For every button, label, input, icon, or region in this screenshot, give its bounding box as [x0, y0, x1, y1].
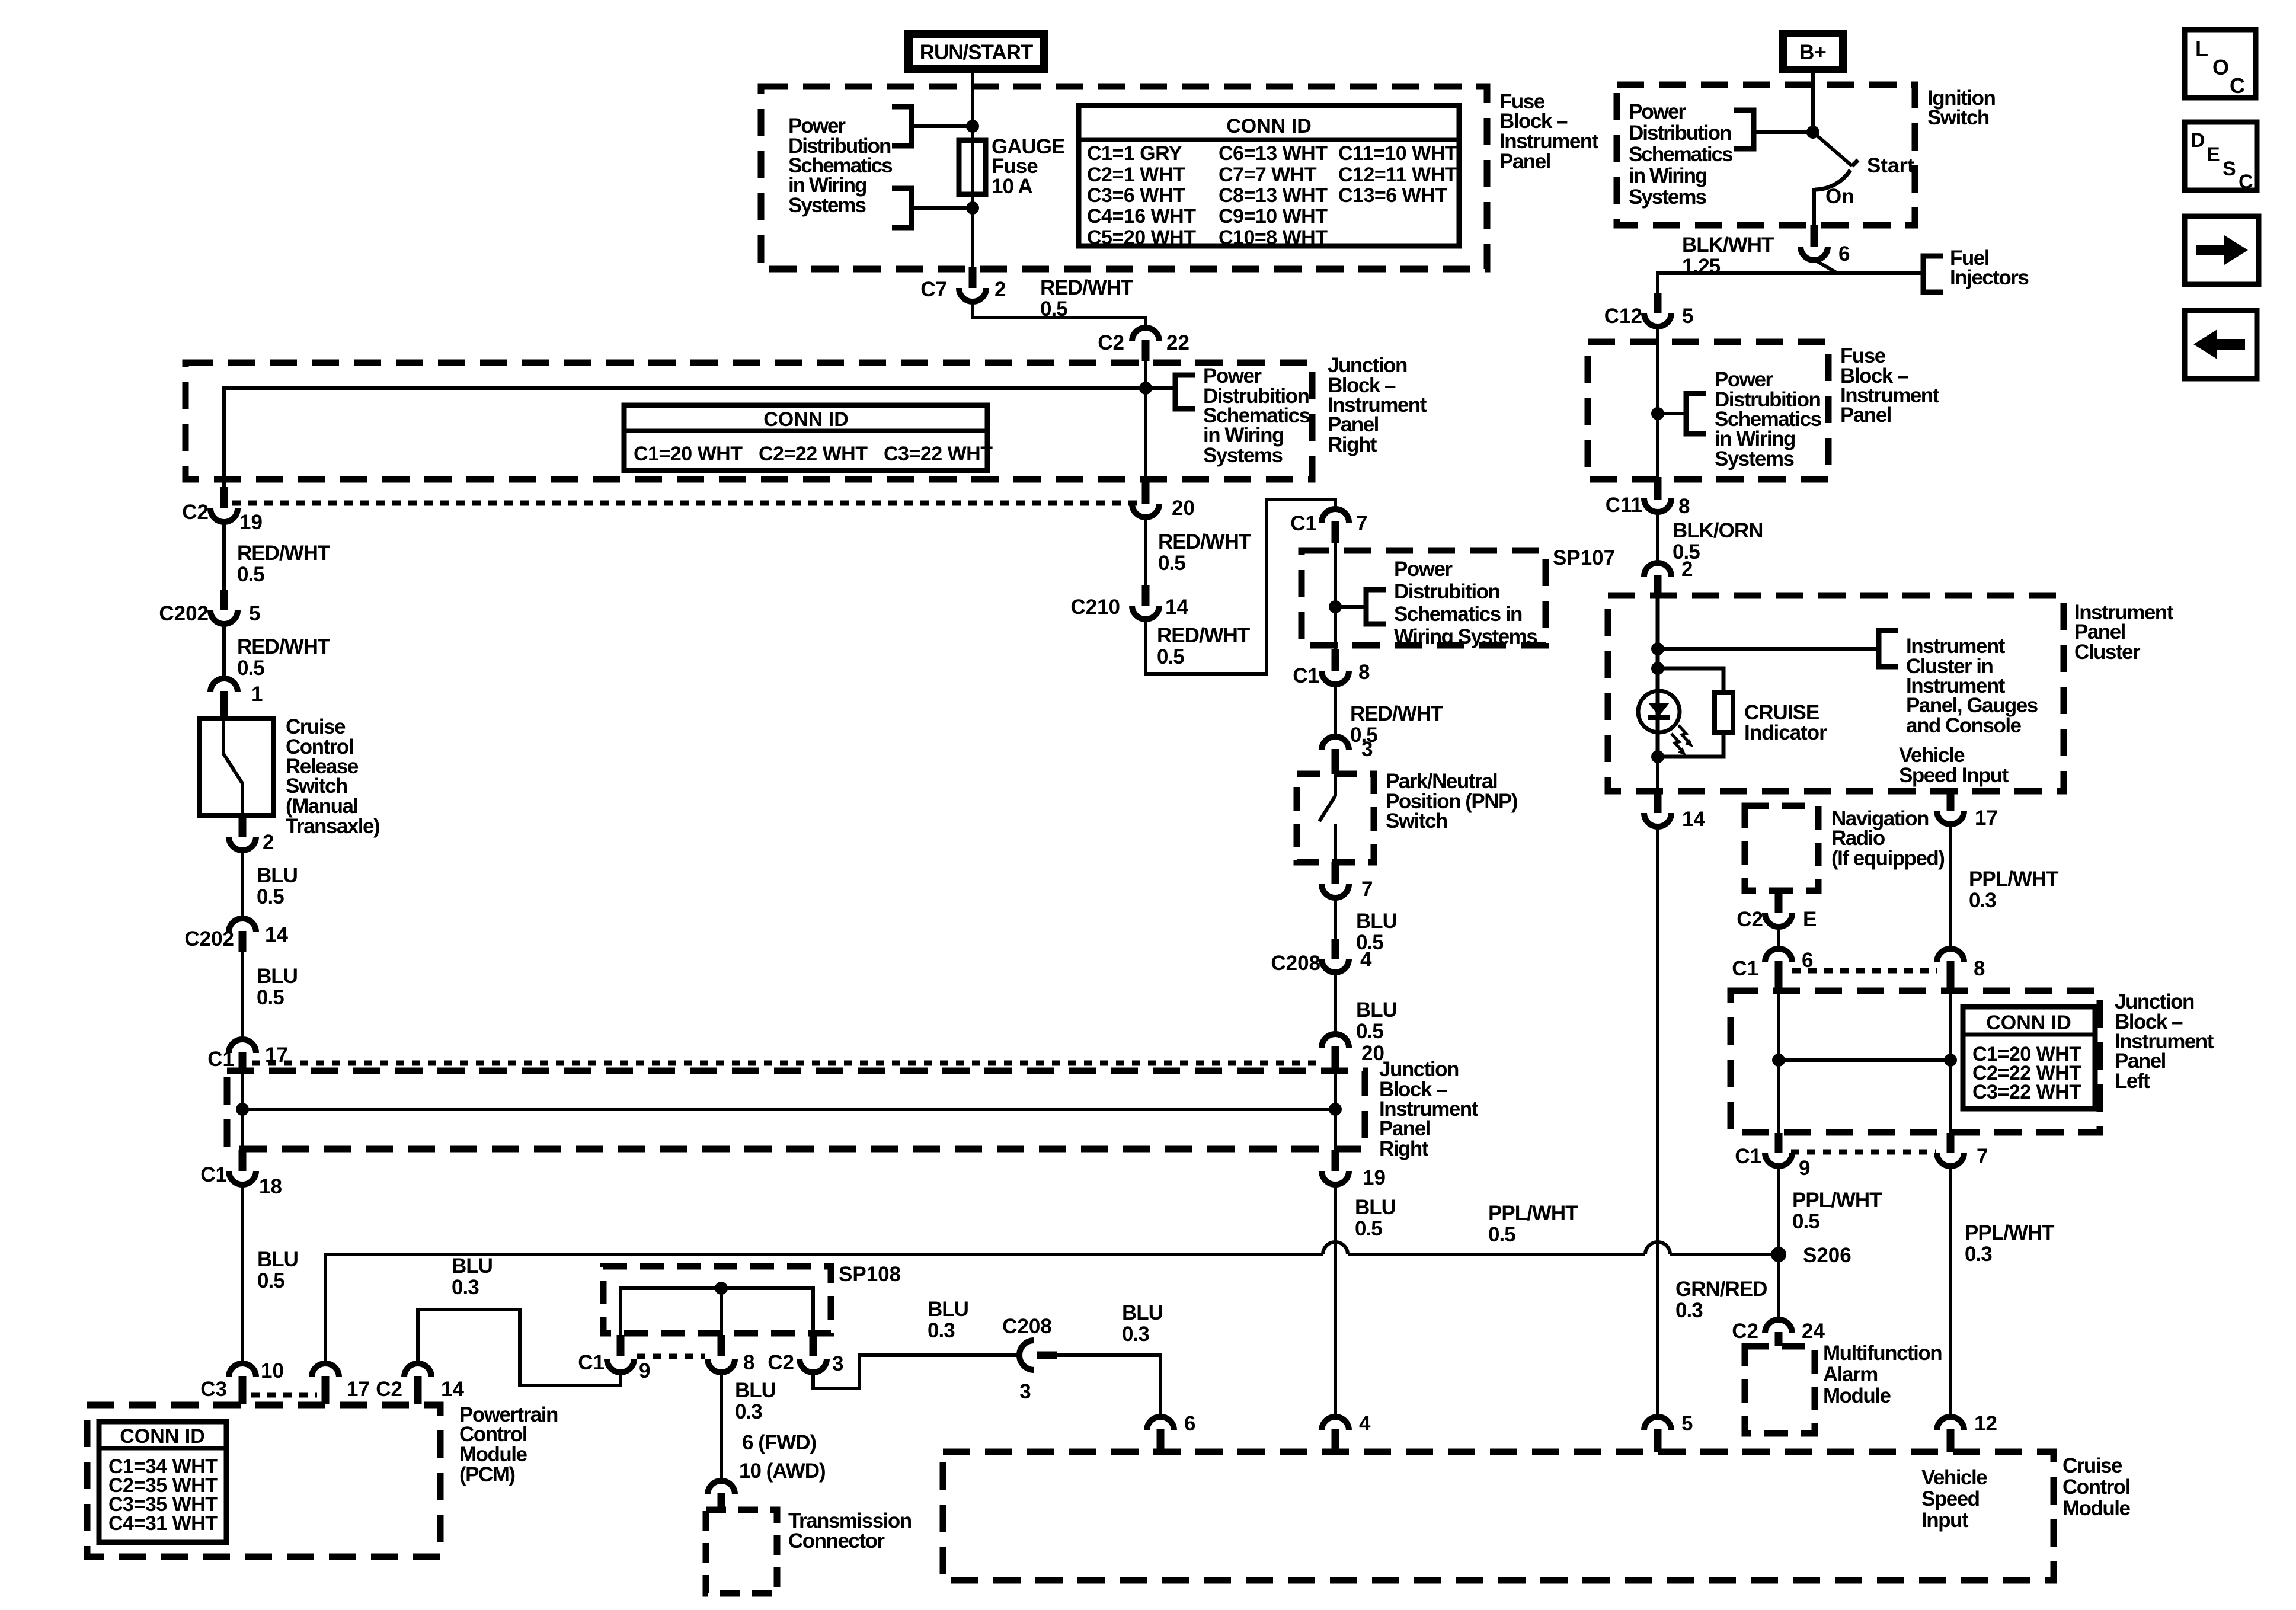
junction dot jb left (right): [1944, 1054, 1957, 1067]
svg-text:0.5: 0.5: [237, 657, 264, 680]
svg-text:C5=20 WHT: C5=20 WHT: [1087, 226, 1196, 249]
svg-text:C208: C208: [1271, 952, 1320, 975]
svg-text:Module: Module: [1823, 1384, 1891, 1407]
svg-text:D: D: [2191, 129, 2205, 152]
label Junction Block - Instrument Panel Right (upper): [1328, 354, 1427, 456]
connector C202 pin 5: [159, 590, 260, 625]
dotted line 6 to 8: [1792, 968, 1937, 974]
svg-text:C3: C3: [200, 1378, 227, 1401]
svg-text:8: 8: [1358, 661, 1370, 684]
junction dot LED bottom: [1651, 750, 1664, 763]
svg-text:0.5: 0.5: [257, 885, 284, 908]
svg-text:8: 8: [1678, 495, 1690, 518]
svg-text:17: 17: [347, 1378, 370, 1401]
svg-text:C12: C12: [1604, 305, 1642, 328]
CRUISE indicator LED: [1638, 691, 1693, 756]
svg-text:18: 18: [259, 1175, 282, 1198]
connector transmission: [708, 1481, 735, 1510]
svg-text:C202: C202: [184, 927, 234, 950]
wire C202-14 to C1-17: [241, 952, 244, 1041]
junction dot jb right upper: [1139, 382, 1152, 395]
svg-text:0.3: 0.3: [452, 1276, 479, 1299]
connector C1 pin 9 (SP108): [578, 1335, 650, 1382]
PNP switch blade: [1319, 774, 1335, 862]
release switch blade: [223, 718, 242, 815]
svg-text:0.3: 0.3: [1965, 1243, 1992, 1266]
wire jb dot to bracket: [1146, 386, 1175, 390]
wire 19 to C202: [222, 521, 226, 591]
bracket power distribution (ignition): [1734, 110, 1754, 149]
svg-text:Systems: Systems: [1203, 444, 1283, 467]
junction dot fuse bottom bracket: [966, 201, 979, 215]
svg-text:C202: C202: [159, 602, 209, 625]
label Ignition Switch: [1927, 87, 1995, 129]
svg-text:C1: C1: [1735, 1145, 1761, 1168]
svg-text:7: 7: [1356, 512, 1367, 535]
connector C1 pin 7: [1290, 509, 1367, 543]
svg-text:Vehicle: Vehicle: [1921, 1466, 1987, 1489]
svg-text:On: On: [1825, 185, 1854, 208]
hop of speed wire over 19 wire: [1323, 1242, 1348, 1254]
svg-text:C9=10 WHT: C9=10 WHT: [1219, 205, 1328, 228]
wire C12-5 through fuse block: [1656, 326, 1659, 481]
bracket power distrubition (jb right upper): [1175, 375, 1195, 409]
svg-text:Module: Module: [2062, 1497, 2131, 1520]
svg-text:Schematics in: Schematics in: [1394, 603, 1522, 626]
speed wire right segment: [1670, 1253, 1779, 1256]
svg-text:10: 10: [261, 1359, 284, 1382]
svg-text:BLU: BLU: [928, 1298, 968, 1321]
connector 2 (cluster in): [1644, 512, 1693, 598]
connector C1 pin 6 (jb left): [1732, 949, 1813, 991]
svg-text:0.3: 0.3: [1122, 1323, 1149, 1346]
connector 7 (PNP out): [1322, 862, 1373, 901]
svg-text:C10=8 WHT: C10=8 WHT: [1219, 226, 1328, 249]
wire RUN/START to fuse: [971, 73, 974, 142]
svg-text:C7=7 WHT: C7=7 WHT: [1219, 164, 1317, 186]
fuse GAUGE 10 A: [959, 140, 986, 208]
wire bracket to fuse wire (top): [912, 124, 973, 128]
svg-text:C3=22 WHT: C3=22 WHT: [1972, 1081, 2081, 1103]
label Junction Block - Instrument Panel Right (lower): [1379, 1058, 1479, 1160]
label Instrument Panel Cluster: [2074, 601, 2174, 664]
connector 17 (cluster exit): [1937, 806, 1998, 830]
cruise control module dashed box: [943, 1452, 2054, 1580]
dotted line SP108 connectors: [637, 1354, 705, 1359]
label CRUISE Indicator: [1744, 701, 1827, 744]
svg-text:PPL/WHT: PPL/WHT: [1969, 868, 2058, 891]
svg-text:RED/WHT: RED/WHT: [1158, 530, 1251, 553]
connector C2 pin 14 (PCM): [376, 1363, 464, 1404]
svg-text:0.3: 0.3: [928, 1319, 955, 1342]
svg-text:Switch: Switch: [1386, 809, 1447, 833]
svg-text:Cluster: Cluster: [2074, 641, 2141, 664]
connector 2 (release switch): [229, 815, 274, 854]
svg-text:PPL/WHT: PPL/WHT: [1792, 1189, 1882, 1212]
svg-text:Cruise: Cruise: [2062, 1454, 2122, 1477]
svg-text:3: 3: [832, 1352, 843, 1375]
svg-text:C8=13 WHT: C8=13 WHT: [1219, 184, 1328, 207]
connector 20 (jb right exit): [1132, 481, 1195, 520]
wire C210 to C1-7 loop: [1146, 500, 1335, 674]
junction dot SP108: [715, 1282, 728, 1295]
label PPL/WHT 0.3 (7): [1965, 1221, 2054, 1266]
junction dot cluster top: [1651, 642, 1664, 655]
power feed label RUN/START: [904, 30, 1048, 73]
junction dot SP107: [1329, 600, 1342, 613]
svg-text:17: 17: [1975, 806, 1998, 830]
connector C2 pin 19: [182, 487, 263, 534]
svg-text:0.5: 0.5: [1157, 645, 1184, 668]
junction dot jb lower right: [1329, 1103, 1342, 1116]
bracket power distrubition (SP107): [1366, 590, 1386, 624]
svg-text:B+: B+: [1799, 41, 1827, 64]
svg-text:Power: Power: [1629, 100, 1686, 123]
svg-text:PPL/WHT: PPL/WHT: [1488, 1202, 1578, 1225]
label SP107: [1553, 546, 1615, 569]
svg-text:0.3: 0.3: [735, 1400, 762, 1423]
svg-text:19: 19: [239, 511, 263, 534]
svg-text:BLU: BLU: [257, 965, 298, 988]
svg-text:Control: Control: [2062, 1475, 2130, 1499]
wire SP107 dot to bracket: [1335, 605, 1366, 609]
svg-text:8: 8: [743, 1351, 754, 1374]
svg-text:Input: Input: [1921, 1509, 1969, 1532]
svg-text:S: S: [2223, 158, 2236, 180]
wire cluster internal vertical: [1656, 598, 1660, 757]
connector C1 pin 9 (jb left exit): [1735, 1133, 1810, 1180]
label RED/WHT 0.5 (19): [237, 542, 330, 586]
label Park/Neutral Position (PNP) Switch: [1386, 770, 1517, 833]
svg-text:4: 4: [1359, 1412, 1371, 1435]
connector C202 pin 14: [184, 918, 288, 952]
svg-text:(PCM): (PCM): [459, 1463, 515, 1486]
wire C208 to cruise module 6: [1057, 1355, 1160, 1419]
svg-text:0.5: 0.5: [1488, 1223, 1515, 1246]
svg-text:Speed Input: Speed Input: [1899, 764, 2009, 787]
svg-text:BLU: BLU: [257, 864, 298, 887]
connector C2 pin 24: [1732, 1320, 1825, 1346]
svg-text:9: 9: [1799, 1157, 1810, 1180]
svg-text:C1: C1: [207, 1048, 234, 1071]
svg-text:C7: C7: [920, 278, 947, 301]
CONN ID table (jb right): [624, 405, 993, 470]
wire 7 to cruise module 12: [1949, 1166, 1952, 1419]
label BLU 0.5 (release sw): [257, 864, 298, 908]
label Power Distrubition Schematics in Wiring Systems (SP107): [1394, 558, 1537, 648]
svg-text:3: 3: [1361, 738, 1373, 761]
label RED/WHT 0.5 (20): [1158, 530, 1251, 575]
svg-text:SP108: SP108: [839, 1263, 901, 1286]
label Powertrain Control Module (PCM): [459, 1403, 558, 1486]
label On: [1825, 185, 1854, 208]
svg-text:12: 12: [1974, 1412, 1997, 1435]
label Start: [1867, 154, 1914, 177]
svg-text:0.5: 0.5: [237, 563, 264, 586]
svg-text:5: 5: [1682, 305, 1693, 328]
svg-text:C1: C1: [1290, 512, 1317, 535]
svg-text:BLK/WHT: BLK/WHT: [1682, 233, 1774, 257]
svg-text:C3=6 WHT: C3=6 WHT: [1087, 184, 1185, 207]
connector C1 pin 17: [207, 1039, 288, 1074]
svg-text:0.5: 0.5: [1158, 552, 1185, 575]
svg-text:BLU: BLU: [452, 1254, 493, 1278]
label BLK/WHT 1.25: [1682, 233, 1774, 278]
svg-text:C: C: [2239, 171, 2253, 193]
wire E to C1-6: [1777, 926, 1780, 950]
connector C208 pin 4: [1271, 939, 1372, 975]
svg-text:RED/WHT: RED/WHT: [1040, 276, 1133, 299]
wire jb left horizontal: [1779, 1058, 1950, 1062]
svg-text:C2: C2: [1732, 1320, 1758, 1343]
svg-text:Multifunction: Multifunction: [1823, 1342, 1942, 1365]
wire C1-6 through jb left: [1777, 991, 1780, 1134]
bracket fuel injectors: [1923, 256, 1943, 292]
svg-text:7: 7: [1977, 1145, 1988, 1168]
connector 14 (cluster exit): [1644, 793, 1705, 831]
label Multifunction Alarm Module: [1823, 1342, 1942, 1407]
wire C202-5 to 1: [222, 623, 226, 680]
junction dot LED top: [1651, 662, 1664, 675]
label Power Distrubition Schematics in Wiring Systems (fuse block right): [1715, 368, 1822, 470]
connector 3 (PNP): [1322, 737, 1373, 774]
wire C2-22 into junction block: [1144, 361, 1147, 481]
connector 20 (jb right lower): [1322, 1034, 1384, 1073]
svg-text:in Wiring: in Wiring: [1629, 164, 1707, 187]
wire C1-7 through SP107: [1334, 543, 1337, 651]
svg-text:8: 8: [1974, 957, 1985, 980]
svg-text:6: 6: [1838, 242, 1850, 265]
svg-text:RUN/START: RUN/START: [920, 41, 1033, 64]
label Vehicle Speed Input (cruise module): [1921, 1466, 1987, 1532]
label Transmission Connector: [788, 1509, 912, 1553]
svg-text:C6=13 WHT: C6=13 WHT: [1219, 142, 1328, 165]
label BLU 0.3 (C208 right): [1122, 1301, 1163, 1346]
svg-text:5: 5: [249, 602, 260, 625]
svg-text:C2=22 WHT: C2=22 WHT: [759, 443, 868, 465]
svg-text:C2: C2: [768, 1351, 794, 1374]
park/neutral position switch dashed box: [1297, 774, 1374, 862]
wire cluster exit 14: [1656, 757, 1659, 794]
svg-text:0.5: 0.5: [1792, 1210, 1819, 1233]
fuse block - instrument panel dashed box: [761, 87, 1487, 269]
svg-text:L: L: [2195, 37, 2208, 61]
junction block IP right (upper) dashed box: [186, 363, 1312, 479]
svg-text:CONN ID: CONN ID: [763, 408, 849, 431]
cruise control release switch box: [200, 718, 274, 815]
label BLU 0.5 (19): [1355, 1196, 1396, 1240]
svg-text:RED/WHT: RED/WHT: [237, 542, 330, 565]
dotted line between 17 and 20 (lower): [252, 1061, 1323, 1066]
svg-text:9: 9: [639, 1359, 650, 1382]
connector 1 (release switch): [210, 678, 263, 718]
junction dot fuse top bracket: [966, 120, 979, 133]
label BLU 0.5 (PNP): [1356, 910, 1397, 954]
wire 19 down to cruise module 4: [1334, 1184, 1337, 1419]
wire PCM-17 to speed wire: [325, 1254, 1323, 1365]
svg-text:20: 20: [1172, 497, 1195, 520]
svg-text:4: 4: [1360, 948, 1372, 971]
svg-text:6: 6: [1184, 1412, 1195, 1435]
svg-text:C1=20 WHT: C1=20 WHT: [634, 443, 743, 465]
icon arrow right: [2185, 216, 2259, 284]
svg-text:C11=10 WHT: C11=10 WHT: [1338, 142, 1457, 165]
junction block IP left dashed box: [1731, 991, 2100, 1132]
bracket power distribution (bottom): [892, 188, 912, 228]
connector C7 pin 2: [920, 267, 1006, 302]
svg-text:CONN ID: CONN ID: [1226, 115, 1312, 137]
svg-text:Wiring Systems: Wiring Systems: [1394, 625, 1537, 648]
svg-text:Alarm: Alarm: [1823, 1363, 1878, 1386]
svg-text:C2=1 WHT: C2=1 WHT: [1087, 164, 1185, 186]
label Instrument Cluster in Instrument Panel Gauges and Console: [1906, 635, 2038, 737]
svg-text:Systems: Systems: [788, 194, 866, 217]
wire On to connector 6: [1812, 188, 1816, 226]
svg-text:C210: C210: [1070, 596, 1120, 619]
wire 2 to C202-14: [241, 850, 244, 920]
power feed label B+: [1779, 30, 1847, 73]
label RED/WHT 0.5 (C7): [1040, 276, 1133, 321]
svg-text:Schematics: Schematics: [1629, 143, 1733, 166]
multifunction alarm module dashed box: [1745, 1346, 1815, 1433]
svg-text:Distribution: Distribution: [1629, 121, 1731, 145]
svg-text:0.5: 0.5: [257, 1269, 284, 1292]
svg-text:3: 3: [1019, 1380, 1031, 1403]
powertrain control module dashed box: [87, 1405, 440, 1557]
speed wire mid segment: [1348, 1253, 1645, 1256]
bracket power distrubition (fuse block right): [1686, 393, 1706, 434]
instrument panel cluster dashed box: [1608, 596, 2064, 791]
label Vehicle Speed Input (cluster): [1899, 744, 2009, 787]
svg-text:2: 2: [263, 831, 274, 854]
svg-text:19: 19: [1363, 1166, 1386, 1189]
svg-text:C2: C2: [376, 1378, 402, 1401]
svg-text:Switch: Switch: [1927, 106, 1989, 129]
svg-text:Right: Right: [1328, 433, 1377, 456]
wire 6 to fuel injectors and C12: [1658, 260, 1923, 294]
junction block IP right (lower) dashed box: [227, 1071, 1365, 1149]
svg-text:Panel: Panel: [1499, 150, 1550, 173]
svg-text:S206: S206: [1803, 1244, 1851, 1267]
svg-text:Speed: Speed: [1921, 1487, 1980, 1510]
svg-text:C2: C2: [1098, 331, 1124, 354]
svg-text:Left: Left: [2115, 1070, 2150, 1093]
svg-text:(If equipped): (If equipped): [1831, 847, 1944, 870]
connector 4 (cruise module): [1322, 1412, 1371, 1452]
SP107 dashed box: [1302, 550, 1546, 645]
connector C11 pin 8: [1606, 477, 1690, 518]
wire jb lower horizontal: [242, 1108, 1335, 1111]
label Fuel Injectors: [1950, 247, 2029, 289]
connector C210 pin 14: [1070, 585, 1188, 619]
svg-text:C11: C11: [1606, 494, 1642, 517]
svg-text:CONN ID: CONN ID: [1986, 1012, 2071, 1034]
svg-text:Start: Start: [1867, 154, 1914, 177]
connector C2 pin 22: [1098, 328, 1189, 361]
label BLU 0.5 (C202-14): [257, 965, 298, 1009]
connector C2 pin E: [1737, 891, 1817, 931]
svg-text:C2: C2: [1737, 908, 1763, 931]
connector 7 (jb left exit): [1937, 1133, 1988, 1168]
wire 7 to C208-4: [1334, 897, 1337, 940]
svg-text:Indicator: Indicator: [1744, 721, 1827, 744]
svg-text:BLU: BLU: [735, 1379, 776, 1402]
label GRN/RED 0.3: [1675, 1278, 1767, 1322]
junction dot jb left (left): [1772, 1054, 1785, 1067]
wire fuse to C7: [971, 208, 974, 268]
svg-text:C13=6 WHT: C13=6 WHT: [1338, 184, 1447, 207]
wire C208-4 to 20: [1334, 972, 1337, 1036]
icon LOC: [2185, 30, 2256, 98]
label GAUGE Fuse 10 A: [992, 135, 1064, 198]
svg-text:C12=11 WHT: C12=11 WHT: [1338, 164, 1457, 186]
connector 12 (cruise module): [1937, 1412, 1997, 1452]
svg-text:14: 14: [1682, 808, 1705, 831]
connector 8 (SP108): [708, 1335, 754, 1374]
wire 20 to C210: [1144, 517, 1147, 587]
ignition rotary arc: [1815, 170, 1850, 190]
label BLK/ORN 0.5: [1673, 519, 1763, 564]
dotted line 9 to 7: [1791, 1150, 1936, 1155]
wire 14 down to cruise module 5: [1656, 826, 1659, 1419]
ignition switch dashed box: [1617, 85, 1915, 225]
wire bracket to fuse wire (bottom): [912, 206, 973, 210]
svg-text:and Console: and Console: [1906, 714, 2022, 737]
connector C1 pin 18: [200, 1150, 282, 1198]
dotted line C3-10 to 17: [251, 1393, 317, 1398]
svg-text:C4=31 WHT: C4=31 WHT: [108, 1512, 218, 1535]
svg-text:C2: C2: [182, 501, 209, 524]
CONN ID table (PCM): [99, 1422, 226, 1542]
SP108 dashed box: [603, 1266, 831, 1333]
connector 6 (cruise module): [1147, 1412, 1195, 1452]
svg-text:C3=22 WHT: C3=22 WHT: [884, 443, 993, 465]
label Power Distribution Schematics in Wiring Systems (fuse block): [788, 114, 893, 217]
connector 19 (jb lower exit): [1322, 1150, 1386, 1189]
connector 17 (PCM): [312, 1363, 370, 1404]
svg-text:RED/WHT: RED/WHT: [237, 635, 330, 658]
wire jb horizontal to left exit: [224, 388, 1146, 488]
label BLU 0.3 (transmission): [735, 1379, 776, 1423]
label Power Distribution Schematics in Wiring Systems (ignition): [1629, 100, 1733, 209]
hop of speed wire over cluster wire: [1645, 1242, 1670, 1254]
svg-text:0.5: 0.5: [257, 986, 284, 1009]
svg-text:14: 14: [1165, 596, 1188, 619]
connector C2 pin 3 (SP108): [768, 1335, 843, 1375]
label Navigation Radio (If equipped): [1831, 807, 1944, 870]
svg-text:2: 2: [994, 278, 1006, 301]
label SP108: [839, 1263, 901, 1286]
connector 8 (jb left): [1937, 949, 1985, 991]
wire ignition bracket to junction: [1754, 130, 1813, 134]
svg-text:Distrubition: Distrubition: [1394, 580, 1499, 603]
svg-text:Transaxle): Transaxle): [286, 815, 379, 838]
svg-text:10 A: 10 A: [992, 175, 1032, 198]
svg-text:Systems: Systems: [1629, 185, 1707, 209]
connector C12 pin 5: [1604, 293, 1694, 328]
label RED/WHT 0.5 (C202-5): [237, 635, 330, 680]
label PPL/WHT 0.5 (C1-9): [1792, 1189, 1882, 1233]
label PPL/WHT 0.5 (speed wire): [1488, 1202, 1578, 1246]
svg-text:E: E: [2207, 143, 2220, 166]
svg-text:0.3: 0.3: [1969, 889, 1996, 912]
label Cruise Control Module: [2062, 1454, 2131, 1520]
connector C3 pin 10: [200, 1359, 284, 1404]
CONN ID table (jb left): [1963, 1007, 2095, 1109]
junction dot jb lower left: [236, 1103, 249, 1116]
connector C1 pin 8: [1293, 649, 1370, 687]
svg-text:0.5: 0.5: [1355, 1217, 1382, 1240]
